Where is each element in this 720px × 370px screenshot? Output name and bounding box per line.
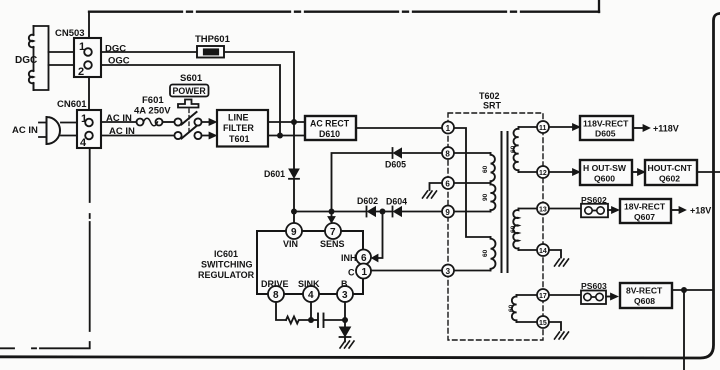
wire CN503 pin1 to top boundary <box>88 12 90 38</box>
svg-text:CN601: CN601 <box>57 99 87 110</box>
primary winding P2 (pins 6-9) <box>491 183 496 212</box>
thermistor THP601 <box>197 46 224 58</box>
diode D602 <box>367 207 376 217</box>
diode D605 <box>393 148 402 158</box>
svg-text:18V-RECT: 18V-RECT <box>624 202 666 212</box>
secondary winding S2 (pins 13-14) <box>513 209 518 251</box>
wire pin 13 to PS602 <box>549 208 581 210</box>
svg-text:LINE: LINE <box>228 113 249 123</box>
junction node (SINK) <box>308 317 314 323</box>
primary winding P3 (pin1-line to pin 3) <box>491 237 496 271</box>
arrow into 18V-RECT <box>612 207 620 214</box>
switch block H OUT-SW Q600 <box>580 160 632 185</box>
arrow into H OUT-SW <box>573 169 581 176</box>
T602 core <box>502 132 508 272</box>
svg-text:C: C <box>348 268 355 278</box>
wire pin 17 to PS603 <box>549 294 581 296</box>
svg-text:VIN: VIN <box>283 239 298 249</box>
rectifier 8V-RECT Q608 <box>620 283 672 308</box>
wire THP node down through D601 to VIN node <box>293 122 295 223</box>
wire plug to CN601 <box>61 123 77 136</box>
svg-text:4: 4 <box>308 290 314 301</box>
T602 primary pin 8 <box>442 147 454 159</box>
wire winding to pin 15 <box>517 321 538 323</box>
diode (B to ground) <box>340 327 351 342</box>
svg-text:T601: T601 <box>229 134 250 144</box>
wire pin 11 to secondary winding <box>519 126 538 128</box>
svg-text:9: 9 <box>445 208 450 217</box>
svg-text:8: 8 <box>273 290 279 301</box>
svg-text:D605: D605 <box>595 129 616 139</box>
svg-text:6: 6 <box>361 253 367 264</box>
svg-text:H OUT-SW: H OUT-SW <box>583 163 627 173</box>
wire pin 9 to winding <box>454 211 491 213</box>
wire pin 17 to secondary winding <box>517 294 538 296</box>
T602 secondary pin 17 <box>537 289 549 301</box>
wire PS603 to 8V-RECT <box>606 296 611 298</box>
svg-text:FILTER: FILTER <box>223 123 254 133</box>
svg-text:D610: D610 <box>319 129 340 139</box>
wire SENS branch (corner, through D605 to T602 pin 8) <box>332 153 443 216</box>
T602 secondary pin 13 <box>537 203 549 215</box>
wire DGC line 1 (pin1 to THP601 to node) <box>101 52 294 122</box>
svg-text:3: 3 <box>446 267 451 276</box>
secondary winding S1 (pins 11-12) <box>514 127 519 172</box>
arrow into HOUT-CNT <box>638 169 646 176</box>
svg-text:HOUT-CNT: HOUT-CNT <box>648 163 693 173</box>
resistor (DRIVE-SINK) <box>286 317 311 324</box>
section boundary (dash-dot, top) <box>89 0 599 12</box>
connector CN503 <box>74 38 101 78</box>
svg-text:60: 60 <box>508 304 515 312</box>
T602 secondary pin 12 <box>537 166 549 178</box>
svg-text:90: 90 <box>482 193 489 201</box>
svg-text:T602: T602 <box>479 91 500 101</box>
svg-text:60: 60 <box>510 145 517 153</box>
svg-text:D604: D604 <box>386 197 407 207</box>
T602 secondary pin 14 <box>537 244 549 256</box>
svg-text:D602: D602 <box>357 196 378 206</box>
svg-text:B: B <box>341 279 348 289</box>
wire DGC line 2 (pin2 right, down to lower AC node) <box>101 65 280 136</box>
wire 118V-RECT output <box>633 127 643 129</box>
wire AC IN neutral (CN601 pin4 to switch) <box>101 135 175 137</box>
wire B pin down <box>344 302 346 327</box>
fuse link PS602 <box>581 204 608 218</box>
wire DRIVE pin down <box>276 302 286 320</box>
arrow +18V <box>679 207 686 214</box>
wire pin 15 to ground <box>549 322 561 330</box>
T602 shield box (dashed) <box>448 113 543 340</box>
T602 primary pin 6 <box>442 177 454 189</box>
arrow into INH pin <box>372 254 379 261</box>
AC plug <box>39 117 60 144</box>
arrow into SENS pin <box>328 217 335 224</box>
junction node (DGC2 line / lower AC) <box>277 133 283 139</box>
diode D604 <box>393 207 402 217</box>
svg-text:IC601: IC601 <box>214 249 238 259</box>
ground (pin 15) <box>555 332 569 339</box>
svg-text:3: 3 <box>342 290 348 301</box>
svg-text:17: 17 <box>539 293 547 300</box>
junction node (8V out) <box>681 287 687 293</box>
T602 primary pin 3 <box>442 265 454 277</box>
switch S601 <box>174 100 201 140</box>
capacitor (SINK-B) <box>311 314 345 328</box>
wire AC RECT to T602 pin 1 <box>356 127 442 129</box>
junction node (B) <box>342 317 348 323</box>
svg-text:+118V: +118V <box>653 124 679 134</box>
wire T602 pin 6 to ground <box>430 183 443 190</box>
junction node (SENS / D602 line) <box>329 209 335 215</box>
wire pin 11 to 118V-RECT <box>549 126 573 128</box>
svg-text:SRT: SRT <box>483 101 502 111</box>
T602 primary pin 1 <box>442 122 454 134</box>
wire H OUT-SW to HOUT-CNT <box>632 171 638 173</box>
wire 18V-RECT output <box>671 209 679 211</box>
svg-text:F601: F601 <box>142 95 164 106</box>
svg-text:AC RECT: AC RECT <box>310 119 350 129</box>
wire T602 pin 1 to primary winding 3 <box>454 128 491 237</box>
svg-text:12: 12 <box>539 170 547 177</box>
svg-text:Q608: Q608 <box>634 296 655 306</box>
wire CN503 to CN601 <box>88 77 90 110</box>
wire pin 14 to ground <box>549 250 561 258</box>
svg-text:THP601: THP601 <box>195 34 231 45</box>
wire 8V node down <box>683 290 685 370</box>
svg-text:15: 15 <box>539 320 547 327</box>
svg-text:INH: INH <box>341 253 357 263</box>
svg-text:SENS: SENS <box>320 239 345 249</box>
label POWER (box) <box>170 85 209 97</box>
wire winding to pin 14 <box>519 249 538 251</box>
wire C pin to T602 pin 3 <box>371 270 442 272</box>
svg-text:CN503: CN503 <box>55 28 85 39</box>
svg-text:Q600: Q600 <box>594 174 615 184</box>
svg-text:8: 8 <box>445 150 450 159</box>
wire 8V-RECT output to border <box>672 289 714 291</box>
line filter T601 <box>217 110 268 147</box>
svg-text:Q602: Q602 <box>659 174 680 184</box>
svg-text:60: 60 <box>482 249 489 257</box>
wire HOUT-CNT output <box>697 171 720 173</box>
svg-text:60: 60 <box>482 165 489 173</box>
wire fuse to switch <box>163 121 175 123</box>
ground (T602 pin 6) <box>423 191 437 198</box>
wire LF to AC RECT (upper) <box>268 121 305 123</box>
svg-text:13: 13 <box>539 207 547 214</box>
wire D602/D604 line to T602 pin 9 <box>294 211 442 213</box>
svg-text:POWER: POWER <box>173 86 207 96</box>
svg-text:60: 60 <box>510 225 517 233</box>
rectifier AC RECT D610 <box>305 116 356 140</box>
wire PS602 to 18V-RECT <box>608 209 612 211</box>
label IC601 SWITCHING REGULATOR <box>198 249 255 280</box>
wire pin 8 to winding <box>454 152 491 154</box>
svg-text:7: 7 <box>330 227 336 238</box>
ground (IC bottom) <box>340 341 354 348</box>
choke DGC <box>29 26 49 90</box>
svg-text:SINK: SINK <box>298 279 320 289</box>
primary winding P1 (pins 8-6) <box>491 153 495 183</box>
svg-text:PS603: PS603 <box>581 281 607 291</box>
svg-text:14: 14 <box>539 248 547 255</box>
arrow into 8V-RECT <box>611 293 619 300</box>
wire INH branch <box>378 212 383 259</box>
ground (pin 14) <box>555 259 569 266</box>
wire pin 3 to winding <box>454 270 491 272</box>
op-amp / IC601 switching regulator <box>257 223 371 302</box>
svg-text:9: 9 <box>291 227 297 238</box>
svg-text:1: 1 <box>446 124 451 133</box>
wire choke to CN503 <box>49 52 75 65</box>
svg-text:SWITCHING: SWITCHING <box>201 260 253 270</box>
arrow +118V <box>643 125 650 132</box>
svg-text:4A 250V: 4A 250V <box>134 106 171 117</box>
svg-text:8V-RECT: 8V-RECT <box>626 286 663 296</box>
svg-text:OGC: OGC <box>108 56 130 67</box>
svg-text:1: 1 <box>362 267 368 278</box>
fuse F601 <box>137 118 163 126</box>
connector CN601 <box>77 110 101 149</box>
svg-text:S601: S601 <box>180 73 203 84</box>
wire pin 6 to winding <box>454 182 491 184</box>
wire winding to pin 12 <box>519 171 538 173</box>
svg-text:AC IN: AC IN <box>12 125 38 136</box>
wire SINK pin down <box>310 302 312 320</box>
T602 secondary pin 11 <box>537 121 549 133</box>
T602 primary pin 9 <box>442 206 454 218</box>
svg-text:11: 11 <box>539 125 547 132</box>
section boundary (left, below CN601) <box>0 148 90 348</box>
block HOUT-CNT Q602 <box>645 160 697 185</box>
T602 secondary pin 15 <box>537 316 549 328</box>
svg-text:2: 2 <box>78 66 84 78</box>
svg-text:DRIVE: DRIVE <box>261 279 289 289</box>
junction node (INH branch) <box>380 209 386 215</box>
wire LF to AC RECT (lower) <box>268 135 305 137</box>
svg-text:D601: D601 <box>264 169 285 179</box>
svg-text:REGULATOR: REGULATOR <box>198 270 255 280</box>
svg-text:Q607: Q607 <box>634 212 655 222</box>
svg-text:D605: D605 <box>385 160 406 170</box>
wire switch to line filter (with arrows) <box>202 119 217 139</box>
wire pin 12 to H OUT-SW <box>549 171 573 173</box>
junction node (VIN / D602 line) <box>291 209 297 215</box>
fuse link PS603 <box>581 291 606 305</box>
svg-text:6: 6 <box>445 180 450 189</box>
diode D601 <box>289 169 299 179</box>
wire pin 13 to secondary winding <box>519 208 538 210</box>
svg-text:DGC: DGC <box>15 55 37 66</box>
svg-text:118V-RECT: 118V-RECT <box>583 119 629 129</box>
rectifier 18V-RECT Q607 <box>620 199 671 223</box>
rectifier 118V-RECT D605 <box>580 116 633 140</box>
svg-text:DGC: DGC <box>105 44 126 55</box>
svg-text:AC IN: AC IN <box>106 113 132 124</box>
arrow into 118V-RECT <box>573 124 581 131</box>
svg-text:+18V: +18V <box>690 206 711 216</box>
wire AC IN hot (CN601 pin1 to fuse) <box>101 121 137 123</box>
junction node (THP line / upper AC) <box>291 119 297 125</box>
secondary winding S3 (pins 17-15) <box>512 295 517 322</box>
